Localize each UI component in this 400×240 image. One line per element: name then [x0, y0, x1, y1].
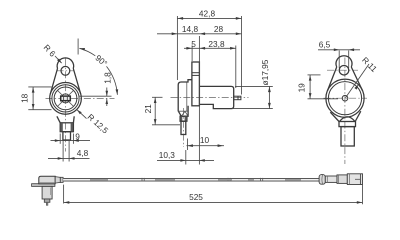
- svg-text:10,3: 10,3: [159, 150, 176, 160]
- svg-text:1,8: 1,8: [103, 72, 113, 84]
- svg-text:9: 9: [75, 132, 80, 142]
- cylinder body outline view2: [199, 86, 233, 108]
- connector housing inner line: [355, 178, 360, 180]
- dim 18 top arrow: [32, 87, 35, 92]
- dim 10,3 right arrow: [199, 159, 204, 162]
- dim 19 top arrow: [309, 75, 312, 80]
- dim 18 bottom arrow: [32, 104, 35, 109]
- center slot rectangle view1: [61, 96, 71, 101]
- dim 21 top extension line: [152, 96, 163, 98]
- dim 9 left arrow: [55, 139, 60, 142]
- connector mid tick: [338, 175, 340, 184]
- stem side bar left view1: [61, 123, 63, 131]
- dim 1,8 extension line: [80, 95, 112, 97]
- connector pin band view2: [237, 96, 239, 100]
- dim 4,8 right arrow: [69, 157, 74, 160]
- stem side bar right view1: [71, 123, 73, 131]
- dim 1,8 arrow line: [106, 88, 108, 97]
- dim 18 dimension line: [32, 87, 34, 110]
- dim 21 top arrow: [154, 98, 157, 103]
- svg-text:525: 525: [189, 192, 203, 202]
- R6 leader line: [55, 56, 62, 63]
- connector end cap line: [359, 174, 361, 185]
- svg-text:21: 21: [143, 104, 153, 114]
- dim 18 bottom extension line: [28, 109, 51, 111]
- cable print mark 3: [218, 179, 232, 180]
- dim 9 right arrow: [73, 139, 78, 142]
- head inner horizontal line view2: [178, 110, 188, 112]
- neck left slant view3: [330, 112, 339, 121]
- flange left tangent view3: [328, 67, 337, 91]
- svg-text:23,8: 23,8: [208, 39, 225, 49]
- angle 90deg arc lower segment: [107, 66, 118, 94]
- R11 leader line: [346, 64, 370, 98]
- dim 42,8 left extension line: [176, 16, 178, 80]
- flange hole line 1 view2: [192, 72, 200, 74]
- dim 10 dimension line: [187, 145, 225, 147]
- connector sleeve tick: [326, 176, 328, 182]
- outer ring inner circle view1: [52, 85, 79, 112]
- svg-text:10: 10: [200, 135, 210, 145]
- svg-text:42,8: 42,8: [199, 8, 216, 18]
- dim 4,8 left arrow: [58, 157, 63, 160]
- stem narrow box view1: [63, 132, 71, 140]
- dim 1,8 arrow tail: [106, 99, 108, 106]
- spoke line 1 view1: [69, 102, 73, 106]
- dim 6,5 right extension line: [348, 51, 350, 69]
- dim 18 top extension line: [28, 86, 51, 88]
- dim 10,3 left extension line: [185, 150, 187, 165]
- dim 6,5 dimension line: [318, 49, 360, 51]
- dim 525 left arrow: [64, 201, 69, 204]
- dim 4,8 left extension line: [62, 140, 64, 162]
- mounting hole circle view3: [339, 65, 349, 75]
- assembly body shading band: [39, 182, 54, 183]
- dim 6,5 left extension line: [338, 51, 340, 69]
- dim 5/23,8 dimension line: [184, 47, 236, 49]
- view3 horizontal centerline: [324, 97, 368, 99]
- dim 10 right arrow: [218, 144, 223, 147]
- assembly tip block: [44, 199, 50, 202]
- dim 23,8 right extension line: [235, 46, 237, 89]
- dim 21 dimension line: [154, 97, 156, 125]
- head inner vertical line view2: [186, 83, 188, 112]
- dim 14,8/28 dimension line: [157, 33, 242, 35]
- dim 10 left extension line: [187, 139, 189, 151]
- dim 525 left extension line: [63, 185, 65, 204]
- R12,5 leader line: [77, 110, 87, 119]
- inner ring circle view3: [328, 82, 361, 115]
- stem side bar right view2: [185, 117, 187, 121]
- head notch slant 1 view2: [181, 111, 185, 116]
- R6 leader arrow: [57, 59, 62, 64]
- stem box view3: [341, 127, 354, 146]
- dim 5 right arrow: [200, 47, 205, 50]
- neck right slant view3: [355, 111, 361, 121]
- assembly flange plate: [32, 184, 55, 187]
- mounting hole circle view1: [61, 66, 70, 75]
- assembly boot: [55, 177, 60, 184]
- outer circle R11 view3: [326, 79, 364, 117]
- view3 vertical centerline: [344, 58, 346, 165]
- angle arc bottom arrow: [116, 89, 119, 95]
- view3 hole horizontal centerline: [327, 69, 358, 71]
- dim 17,95 top extension line: [235, 85, 273, 87]
- connector grommet: [319, 175, 325, 185]
- cable joint 3: [261, 178, 263, 182]
- view1 vertical centerline: [65, 59, 67, 152]
- angle 90deg extension line: [77, 39, 79, 55]
- outer circle R12.5 view1: [50, 83, 82, 115]
- dim 42,8 dimension line: [177, 17, 241, 19]
- dim 10,3 dimension line: [157, 159, 214, 161]
- assembly body block: [39, 176, 55, 184]
- stem side bar left view2: [180, 117, 182, 121]
- svg-text:14,8: 14,8: [182, 24, 199, 34]
- cable joint 1: [142, 178, 144, 182]
- dim 6,5 right arrow: [349, 48, 354, 51]
- dim 19 dimension line: [309, 75, 311, 99]
- R11 leader arrow: [354, 84, 358, 89]
- dim 42,8 left arrow: [178, 17, 183, 20]
- dim 42,8 right extension line: [241, 16, 243, 95]
- view1 hole horizontal centerline: [57, 70, 75, 72]
- assembly head inner line: [50, 188, 52, 196]
- view2 horizontal centerline: [171, 97, 249, 99]
- dim 1,8 up arrow: [106, 99, 109, 104]
- dim 5 left extension line: [191, 46, 193, 62]
- flange plate view2: [192, 62, 200, 106]
- dim 9 left extension line: [59, 134, 61, 144]
- dim 525 right arrow: [357, 201, 362, 204]
- center slot tick 2 view1: [66, 97, 68, 101]
- dim 525 right extension line: [362, 185, 364, 204]
- flange hole line 2 view2: [192, 74, 200, 76]
- dim 1,8 down arrow: [106, 91, 109, 96]
- svg-text:19: 19: [296, 83, 306, 93]
- dim 17,95 bottom arrow: [268, 103, 271, 108]
- flange lobe arc (R6) view1: [57, 58, 74, 69]
- dim 28 right arrow: [236, 32, 241, 35]
- dim 17,95 top arrow: [268, 87, 271, 92]
- neck right slant view1: [72, 116, 75, 123]
- dim 17,95 bottom extension line: [232, 108, 273, 110]
- connector pin view2: [234, 96, 241, 100]
- flange right tangent line view1: [73, 69, 80, 95]
- dim 9 dimension line: [51, 140, 91, 142]
- middle circle dia18 view1: [54, 87, 77, 110]
- flange lobe arc view3: [336, 56, 352, 67]
- dim 19 top extension line: [308, 74, 321, 76]
- spoke line 2 view1: [58, 102, 62, 106]
- center small circle view3: [342, 95, 348, 101]
- cable print mark 2: [155, 179, 175, 180]
- dim 525 dimension line: [64, 201, 363, 203]
- dim 5 left arrow: [186, 47, 191, 50]
- head notch slant 2 view2: [185, 111, 188, 116]
- dim 9 right extension line: [72, 134, 74, 144]
- cap dome arc view3: [340, 117, 356, 122]
- flange left tangent line view1: [50, 69, 57, 95]
- dim 17,95 dimension line: [268, 86, 270, 108]
- collar box view3: [339, 122, 356, 127]
- connector sleeve: [325, 176, 337, 182]
- dim 19 bottom arrow: [309, 93, 312, 98]
- svg-text:6,5: 6,5: [319, 39, 331, 49]
- dim 14,8 left outside arrow: [172, 32, 177, 35]
- assembly head block: [42, 186, 52, 199]
- R12,5 leader arrow: [77, 110, 82, 115]
- connector housing: [347, 174, 362, 185]
- dim 10,3 left arrow: [180, 159, 185, 162]
- dim 10 left arrow: [188, 144, 193, 147]
- stem narrow box view2: [181, 121, 186, 134]
- spoke line 4 view1: [69, 91, 73, 95]
- dim 21 bottom arrow: [154, 119, 157, 124]
- cable bottom outline: [63, 180, 321, 183]
- dim 6,5 left arrow: [334, 48, 339, 51]
- spoke line 3 view1: [58, 91, 62, 95]
- small center circle view1: [61, 94, 70, 103]
- connector grommet inner arc: [321, 175, 324, 184]
- cable joint 2: [228, 178, 230, 182]
- dim 4,8 right extension line: [68, 140, 70, 162]
- dim 23,8 right arrow: [230, 47, 235, 50]
- svg-text:18: 18: [19, 93, 29, 103]
- dim 4,8 dimension line: [48, 157, 90, 159]
- svg-text:ø17,95: ø17,95: [260, 59, 270, 85]
- angle arc top arrow: [79, 48, 85, 51]
- assembly tip pin: [46, 202, 48, 205]
- assembly boot sleeve: [60, 177, 63, 182]
- cable print mark 4: [248, 179, 254, 180]
- cable body fill: [63, 178, 321, 182]
- cable print mark 5: [285, 179, 301, 180]
- dim 42,8 right arrow: [236, 17, 241, 20]
- center slot tick 1 view1: [63, 97, 65, 101]
- angle 90deg arc upper segment: [79, 48, 95, 56]
- cable print mark 1: [90, 179, 108, 180]
- connector housing tick: [349, 174, 351, 185]
- svg-text:28: 28: [214, 24, 224, 34]
- neck left slant view1: [57, 116, 60, 123]
- connector mid piece: [337, 175, 347, 184]
- stem outer box view1: [60, 123, 73, 132]
- view1 horizontal centerline: [46, 97, 115, 99]
- stem outer box view2: [180, 116, 187, 121]
- svg-text:5: 5: [191, 39, 196, 49]
- cable top outline: [63, 177, 321, 180]
- dim 28 left arrow: [200, 32, 205, 35]
- dim 21 bottom extension line: [152, 124, 180, 126]
- view2 stem vertical centerline: [182, 108, 184, 147]
- head block outline view2: [178, 80, 192, 117]
- svg-text:4,8: 4,8: [77, 148, 89, 158]
- dim 19 bottom extension line: [308, 98, 339, 100]
- flange right long extension line: [198, 36, 200, 165]
- flange right tangent view3: [351, 67, 362, 91]
